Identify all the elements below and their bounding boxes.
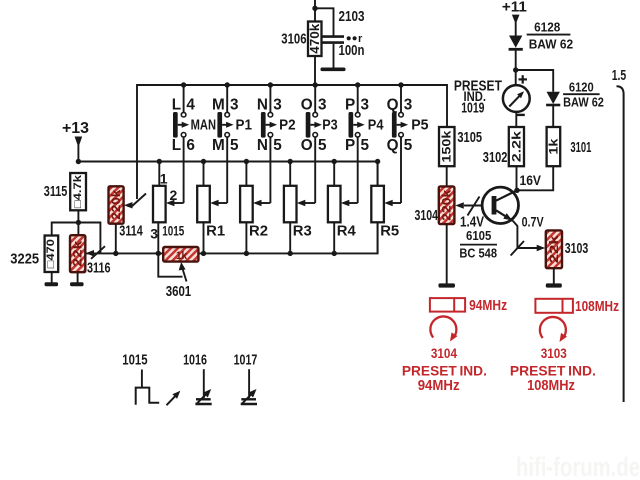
node switch P5 top bus bbox=[398, 82, 403, 87]
node preset ind feed bbox=[513, 67, 518, 72]
wire 3114 to lower bus bbox=[115, 224, 117, 254]
svg-text:3: 3 bbox=[361, 96, 370, 113]
svg-text:5: 5 bbox=[404, 137, 413, 154]
switch P3 pole bar bbox=[306, 112, 311, 138]
switch P2 contact 3/4 wire bbox=[269, 85, 271, 112]
preset 3116 bbox=[71, 236, 84, 271]
node R5 top bus bbox=[375, 159, 380, 164]
preset 3103 22k bbox=[547, 231, 561, 267]
ground below 3104 bbox=[438, 283, 455, 287]
svg-text:3: 3 bbox=[318, 96, 327, 113]
wiper arrow R1 bbox=[216, 202, 227, 204]
wire 6128 to node bbox=[515, 49, 517, 71]
svg-text:□4.7k: □4.7k bbox=[72, 174, 84, 208]
node switch P3 top bus bbox=[313, 82, 318, 87]
svg-text:94MHz: 94MHz bbox=[469, 298, 507, 314]
red rotate arrow 3104 bbox=[430, 316, 456, 337]
red rotate arrow 3103 bbox=[540, 317, 566, 338]
svg-text:□470: □470 bbox=[45, 239, 57, 268]
switch P4 contact 3/4 wire bbox=[357, 85, 359, 112]
node junction above 3106 bbox=[312, 6, 317, 11]
wire R2 bottom bbox=[245, 222, 247, 253]
wire R3 bottom bbox=[289, 222, 291, 253]
switch MAN bottom contact circle bbox=[181, 133, 186, 138]
transistor 6105 BC548 bbox=[482, 187, 518, 223]
wiper of 3601 bbox=[158, 253, 182, 276]
node second bus feed bbox=[76, 159, 81, 164]
svg-text:3104: 3104 bbox=[431, 346, 458, 361]
ground below 3225 bbox=[45, 282, 59, 286]
svg-text:220k: 220k bbox=[109, 189, 123, 219]
wire 3104 to ground bbox=[446, 224, 448, 283]
wire R4 top bbox=[333, 162, 335, 186]
wire top bus bbox=[137, 85, 447, 199]
svg-text:16V: 16V bbox=[520, 173, 542, 188]
svg-text:3: 3 bbox=[273, 96, 282, 113]
svg-text:R4: R4 bbox=[337, 223, 357, 240]
node 1015 pin3 bbox=[156, 251, 161, 256]
svg-text:3115: 3115 bbox=[44, 183, 68, 200]
wire branch to 6120 bbox=[516, 70, 554, 92]
svg-text:M: M bbox=[212, 137, 225, 154]
base wiper arrow into 3104 bbox=[464, 205, 483, 207]
node R2 top bus bbox=[244, 159, 249, 164]
svg-text:3101: 3101 bbox=[570, 139, 591, 156]
red trimmer knob 94MHz bbox=[430, 298, 465, 312]
svg-text:P5: P5 bbox=[411, 118, 428, 134]
svg-text:hifi-forum.de: hifi-forum.de bbox=[516, 452, 640, 480]
svg-text:1015: 1015 bbox=[122, 352, 147, 368]
switch P3 contact 3/4 wire bbox=[314, 85, 316, 112]
node R1 lower bus bbox=[201, 251, 206, 256]
svg-text:1.5: 1.5 bbox=[612, 68, 627, 84]
svg-text:6120: 6120 bbox=[569, 80, 594, 95]
potentiometer R4 bbox=[328, 186, 341, 223]
switch P5 top contact circle bbox=[399, 112, 404, 117]
svg-text:L: L bbox=[172, 96, 181, 113]
svg-text:1: 1 bbox=[160, 171, 168, 187]
svg-text:BAW 62: BAW 62 bbox=[563, 94, 604, 109]
node 1015 pin1 bus bbox=[157, 159, 162, 164]
switch P5 bottom contact circle bbox=[399, 133, 404, 138]
wiper arrow R5 bbox=[390, 202, 401, 204]
svg-text:6: 6 bbox=[186, 137, 195, 154]
plus mark bbox=[519, 78, 528, 80]
switch P5 arrow bbox=[397, 124, 402, 126]
wire below 3115 bbox=[77, 210, 79, 235]
node switch P2 top bus bbox=[268, 82, 273, 87]
svg-text:Q: Q bbox=[387, 137, 399, 154]
svg-text:R5: R5 bbox=[380, 223, 399, 240]
diode 6128 BAW62 bbox=[509, 36, 522, 48]
svg-text:22k: 22k bbox=[71, 240, 85, 266]
svg-text:5: 5 bbox=[230, 137, 239, 154]
svg-text:P1: P1 bbox=[236, 118, 253, 134]
switch P4 contact 5/6 wire to pot wiper bbox=[357, 137, 359, 203]
capacitor 2103 100n bbox=[323, 35, 345, 38]
potentiometer R2 bbox=[240, 186, 253, 223]
svg-text:0.7V: 0.7V bbox=[522, 214, 545, 229]
svg-text:3106: 3106 bbox=[281, 32, 306, 48]
svg-text:P: P bbox=[345, 96, 355, 113]
switch MAN top contact circle bbox=[181, 112, 186, 117]
svg-text:P3: P3 bbox=[322, 118, 338, 134]
potentiometer R1 bbox=[197, 186, 210, 223]
wire lower bus right bbox=[198, 222, 377, 253]
wire branch to 3116 wiper bbox=[78, 223, 100, 253]
switch P2 bottom contact circle bbox=[268, 133, 273, 138]
svg-text:+11: +11 bbox=[502, 0, 527, 16]
switch P2 pole bar bbox=[261, 112, 266, 138]
wire 1015 pin3 bbox=[157, 222, 159, 253]
preset 3114 220k bbox=[110, 187, 123, 222]
svg-text:3102: 3102 bbox=[483, 149, 508, 166]
wiper arrow 3114 bbox=[131, 194, 146, 208]
svg-text:R2: R2 bbox=[249, 223, 268, 240]
node R4 top bus bbox=[332, 159, 337, 164]
switch P4 top contact circle bbox=[355, 112, 360, 117]
switch P2 contact 5/6 wire to pot wiper bbox=[269, 137, 271, 203]
wire R1 bottom bbox=[203, 222, 205, 253]
switch P3 top contact circle bbox=[313, 112, 318, 117]
wire 3105 to 3104 bbox=[446, 166, 448, 186]
collector wire to 3102 bbox=[516, 166, 518, 190]
svg-text:L: L bbox=[172, 137, 181, 154]
switch P1 bottom contact circle bbox=[225, 133, 230, 138]
node R4 lower bus bbox=[332, 251, 337, 256]
svg-text:2103: 2103 bbox=[339, 9, 365, 25]
node collector bbox=[514, 188, 519, 193]
ground below 3103 bbox=[546, 283, 562, 287]
svg-text:108MHz: 108MHz bbox=[575, 299, 619, 315]
wiper arrow R3 bbox=[303, 202, 316, 204]
svg-text:PRESET IND.: PRESET IND. bbox=[510, 362, 596, 378]
resistor 3106 470k bbox=[308, 22, 322, 57]
svg-text:PRESET IND.: PRESET IND. bbox=[402, 362, 487, 378]
minus mark bbox=[516, 114, 525, 116]
switch P4 arrow bbox=[353, 124, 358, 126]
node switch MAN top bus bbox=[181, 82, 186, 87]
switch P2 top contact circle bbox=[268, 112, 273, 117]
switch P1 top contact circle bbox=[225, 112, 230, 117]
svg-text:3601: 3601 bbox=[166, 283, 192, 300]
svg-text:M: M bbox=[212, 96, 225, 113]
switch P3 arrow bbox=[310, 124, 315, 126]
svg-text:N: N bbox=[257, 137, 268, 154]
svg-text:5: 5 bbox=[361, 137, 370, 154]
switch P4 bottom contact circle bbox=[355, 133, 360, 138]
svg-text:1k: 1k bbox=[546, 138, 560, 154]
symbol 1015 potentiometer bbox=[141, 370, 143, 389]
node R3 top bus bbox=[288, 159, 293, 164]
svg-text:3103: 3103 bbox=[565, 240, 589, 257]
node switch P4 top bus bbox=[355, 82, 360, 87]
wire top feed bbox=[314, 0, 316, 22]
potentiometer R3 bbox=[284, 186, 297, 223]
symbol 1017 trimmer bbox=[248, 369, 250, 398]
svg-text:1017: 1017 bbox=[234, 352, 258, 368]
wire R3 top bbox=[289, 162, 291, 186]
wire 6120 to 3101 bbox=[552, 105, 554, 127]
emitter preset arrow to 3103 bbox=[517, 247, 538, 249]
wire R5 bottom bbox=[377, 222, 379, 253]
svg-text:BAW 62: BAW 62 bbox=[529, 37, 573, 52]
svg-text:2.2k: 2.2k bbox=[509, 131, 523, 162]
resistor 3105 150k bbox=[439, 127, 455, 166]
wire branch to 3225 bbox=[52, 223, 79, 236]
svg-text:P2: P2 bbox=[279, 118, 296, 134]
switch MAN contact 3/4 wire bbox=[183, 85, 185, 112]
svg-text:3: 3 bbox=[404, 96, 413, 113]
node 3114 lower bus bbox=[113, 251, 118, 256]
ground below 3116 bbox=[70, 282, 84, 286]
potentiometer R5 bbox=[371, 186, 384, 223]
svg-text:470k: 470k bbox=[308, 24, 322, 54]
preset 3104 220k bbox=[440, 187, 454, 223]
svg-text:220k: 220k bbox=[440, 189, 454, 220]
svg-text:3: 3 bbox=[150, 225, 158, 241]
svg-text:108MHz: 108MHz bbox=[527, 378, 575, 394]
wiper arrow R2 bbox=[259, 202, 271, 204]
svg-text:5: 5 bbox=[318, 137, 327, 154]
switch P3 contact 5/6 wire to pot wiper bbox=[314, 137, 316, 203]
svg-text:BC 548: BC 548 bbox=[459, 246, 497, 261]
svg-text:3114: 3114 bbox=[119, 223, 143, 240]
wire R2 top bbox=[245, 162, 247, 186]
node switch P1 top bus bbox=[225, 82, 230, 87]
wire 3116 to ground bbox=[77, 272, 79, 282]
meter PRESET IND 1019 bbox=[515, 70, 517, 85]
svg-text:5: 5 bbox=[273, 137, 282, 154]
wiper arrow 3116 bbox=[91, 246, 105, 259]
preset 3601 1k bbox=[164, 248, 197, 261]
svg-text:3225: 3225 bbox=[10, 250, 39, 267]
svg-text:22k: 22k bbox=[547, 235, 561, 263]
svg-text:3103: 3103 bbox=[541, 346, 568, 361]
switch MAN contact 5/6 wire to pot wiper bbox=[183, 137, 185, 203]
svg-text:4: 4 bbox=[186, 96, 195, 113]
wire to capacitor branch bbox=[315, 8, 334, 35]
svg-text:Q: Q bbox=[387, 96, 399, 113]
resistor 3102 2.2k bbox=[509, 127, 524, 166]
wire 1015 pin1 bbox=[158, 162, 160, 186]
svg-text:6105: 6105 bbox=[466, 228, 491, 243]
svg-text:MAN: MAN bbox=[191, 118, 216, 134]
wire 3103 to ground bbox=[553, 268, 555, 283]
svg-text:R3: R3 bbox=[293, 223, 312, 240]
emitter wire bbox=[513, 221, 518, 248]
svg-text:O: O bbox=[301, 137, 313, 154]
wire R1 top bbox=[203, 162, 205, 186]
switch P5 contact 3/4 wire bbox=[400, 85, 402, 112]
diode 6120 BAW62 bbox=[547, 92, 560, 104]
node below 3115 bbox=[76, 220, 81, 225]
wire 3106 to top bus bbox=[314, 56, 316, 85]
resistor 3225 470 bbox=[45, 236, 59, 273]
switch P4 pole bar bbox=[349, 112, 354, 138]
svg-text:P4: P4 bbox=[368, 118, 384, 134]
resistor 3115 4.7k bbox=[70, 173, 86, 210]
svg-text:1016: 1016 bbox=[183, 352, 207, 368]
wire R4 bottom bbox=[333, 222, 335, 253]
svg-text:1015: 1015 bbox=[162, 223, 184, 239]
wiper arrow 1015 bbox=[172, 202, 184, 204]
ground below 2103 bbox=[321, 68, 346, 72]
svg-text:R1: R1 bbox=[206, 223, 225, 240]
switch P5 pole bar bbox=[392, 112, 397, 138]
node R2 lower bus bbox=[244, 251, 249, 256]
switch P1 contact 5/6 wire to pot wiper bbox=[226, 137, 228, 203]
node R1 top bus bbox=[201, 159, 206, 164]
svg-text:150k: 150k bbox=[440, 130, 454, 162]
svg-text:3: 3 bbox=[230, 96, 239, 113]
switch P1 contact 3/4 wire bbox=[226, 85, 228, 112]
potentiometer 1015 bbox=[153, 186, 166, 223]
wire 3225 to ground bbox=[51, 272, 53, 283]
switch MAN arrow bbox=[178, 124, 183, 126]
switch P5 contact 5/6 wire to pot wiper bbox=[400, 137, 402, 203]
svg-text:N: N bbox=[257, 96, 268, 113]
svg-text:+13: +13 bbox=[62, 120, 89, 137]
wire lower bus left bbox=[86, 252, 164, 254]
node R3 lower bus bbox=[288, 251, 293, 256]
switch P1 pole bar bbox=[217, 112, 222, 138]
svg-text:P: P bbox=[345, 137, 355, 154]
symbol 1016 trimmer bbox=[203, 369, 205, 398]
svg-text:3104: 3104 bbox=[415, 207, 439, 224]
svg-text:6128: 6128 bbox=[534, 20, 560, 35]
svg-text:94MHz: 94MHz bbox=[418, 378, 460, 394]
svg-text:3116: 3116 bbox=[87, 260, 111, 277]
switch P2 arrow bbox=[266, 124, 271, 126]
svg-text:1019: 1019 bbox=[461, 99, 484, 116]
switch P3 bottom contact circle bbox=[313, 133, 318, 138]
svg-text:1k: 1k bbox=[176, 250, 188, 262]
wire R5 top bbox=[377, 162, 379, 186]
collector wire to 3101 bbox=[517, 166, 553, 190]
svg-text:O: O bbox=[301, 96, 313, 113]
wiper arrow R4 bbox=[347, 202, 358, 204]
svg-text:100n: 100n bbox=[339, 43, 365, 59]
switch MAN pole bar bbox=[173, 112, 178, 138]
svg-text:3105: 3105 bbox=[457, 129, 482, 146]
switch P1 arrow bbox=[222, 124, 227, 126]
wire second bus bbox=[78, 162, 377, 186]
wire meter to 3102 bbox=[515, 112, 517, 127]
red trimmer knob 108MHz bbox=[535, 299, 573, 313]
resistor 3101 1k bbox=[547, 127, 561, 166]
